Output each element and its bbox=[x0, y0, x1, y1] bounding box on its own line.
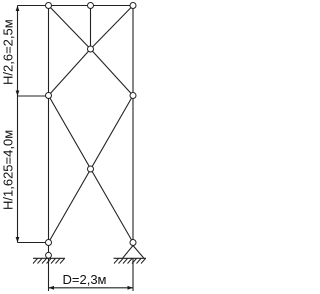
ground hatching right support bbox=[114, 259, 146, 264]
wire diagonal mid-right bbox=[91, 49, 134, 96]
wire vertical dimension line bbox=[17, 6, 19, 243]
svg-text:Н/1,625=4,0м: Н/1,625=4,0м bbox=[1, 130, 16, 210]
wire diagonal mid-left bbox=[49, 49, 91, 96]
node crossing bbox=[88, 166, 94, 172]
wire bottom extension line right bbox=[132, 258, 134, 291]
wire left support ground line bbox=[33, 257, 65, 259]
wire right support triangle left leg bbox=[123, 246, 134, 259]
wire extension line mid level bbox=[18, 95, 49, 97]
node right base bbox=[130, 240, 136, 246]
node left base bbox=[46, 240, 52, 246]
wire top chord bbox=[18, 5, 134, 7]
node top-right bbox=[130, 3, 136, 9]
wire bottom extension line left bbox=[48, 258, 50, 291]
node top-middle bbox=[88, 3, 94, 9]
wire left chord bbox=[48, 6, 50, 246]
arrowhead bottom-dim right bbox=[128, 286, 134, 290]
roller circle left support bbox=[46, 252, 52, 258]
wire right support triangle right leg bbox=[133, 246, 144, 259]
wire bottom dimension line bbox=[49, 287, 134, 289]
node top-left bbox=[46, 3, 52, 9]
node mid apex bbox=[88, 46, 94, 52]
wire middle vertical bbox=[90, 6, 92, 50]
node right mid bbox=[130, 93, 136, 99]
svg-text:D=2,3м: D=2,3м bbox=[63, 272, 107, 287]
wire left support link bbox=[48, 246, 50, 253]
arrowhead base down bbox=[16, 237, 20, 243]
wire extension line base level bbox=[18, 242, 49, 244]
wire diagonal top-left bbox=[49, 6, 91, 50]
arrowhead top up bbox=[16, 6, 20, 12]
ground hatching left support bbox=[33, 259, 65, 264]
wire diagonal top-right bbox=[91, 6, 134, 50]
svg-text:Н/2,6=2,5м: Н/2,6=2,5м bbox=[1, 19, 16, 85]
wire right chord bbox=[132, 6, 134, 246]
arrowhead bottom-dim left bbox=[49, 286, 55, 290]
arrowhead mid down bbox=[16, 91, 20, 97]
wire long diagonal right-to-left bbox=[49, 96, 134, 243]
wire right support ground line bbox=[114, 257, 147, 259]
node left mid bbox=[46, 93, 52, 99]
wire long diagonal left-to-right bbox=[49, 96, 134, 243]
